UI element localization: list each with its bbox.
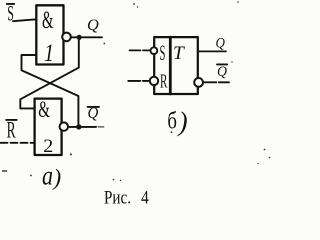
svg-text:R: R [7,117,16,142]
svg-text:Q: Q [87,17,99,34]
svg-text:б: б [167,109,177,135]
svg-text:S: S [7,0,14,25]
svg-text:): ) [52,165,62,190]
svg-text:R: R [160,71,168,93]
svg-text:Q: Q [216,36,226,52]
svg-text:1: 1 [44,40,54,67]
svg-text:а: а [42,161,53,191]
svg-text:&: & [42,7,54,34]
svg-text:Q: Q [217,64,227,80]
svg-text:2: 2 [43,136,53,157]
svg-text:4: 4 [141,187,149,208]
svg-text:Q: Q [88,105,99,122]
svg-text:S: S [160,40,166,65]
svg-text:&: & [38,97,50,122]
svg-text:T: T [173,43,185,64]
svg-text:): ) [177,106,188,136]
svg-text:Рис.: Рис. [104,187,131,208]
